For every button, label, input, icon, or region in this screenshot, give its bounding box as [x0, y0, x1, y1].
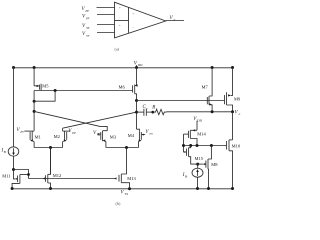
node VDD-M6: [135, 66, 138, 69]
label VDD local: [193, 117, 202, 123]
op-amp U1 body (part a): [115, 2, 166, 38]
svg-text:M13: M13: [127, 176, 136, 181]
label Vpn (input a2): [82, 14, 90, 20]
svg-text:M7: M7: [202, 85, 209, 90]
node IB right on VSS: [196, 187, 199, 190]
svg-text:+: +: [119, 23, 121, 27]
transistor M12: [43, 148, 51, 189]
wire NMOS mirror gate rail: [29, 178, 117, 180]
node M10 source on VSS: [231, 187, 234, 190]
label VSS: [121, 191, 129, 197]
node M13 source on VSS: [128, 187, 131, 190]
wire M8 gate lead: [198, 163, 204, 165]
label Vpp (input a1): [82, 7, 90, 13]
op-amp input wire Vnn: [97, 32, 115, 34]
capacitor Cc: [137, 109, 153, 116]
wire gate line M7/M9: [137, 100, 225, 102]
svg-text:M11: M11: [2, 173, 10, 178]
label Vpn at M1: [17, 128, 25, 134]
node M8 drain tap: [210, 144, 213, 147]
label Vo output: [235, 110, 241, 116]
node M11 source on VSS: [11, 187, 14, 190]
node left tail: [49, 146, 52, 149]
svg-text:DD: DD: [197, 119, 202, 123]
label Vnp at M3: [93, 131, 101, 137]
wire M5 source column: [33, 68, 35, 87]
svg-text:-: -: [133, 25, 134, 29]
svg-text:-: -: [119, 33, 120, 37]
node B at compensation tap: [135, 111, 138, 114]
label Vnn (input a4): [82, 32, 90, 38]
svg-text:SS: SS: [125, 192, 129, 196]
node B upper (second stage input): [135, 99, 138, 102]
transistor M3: [97, 131, 106, 148]
svg-text:M15: M15: [195, 156, 204, 161]
transistor M9: [225, 68, 233, 112]
wire node B column: [136, 101, 138, 130]
label Vo (op-amp output): [170, 16, 176, 22]
svg-text:M12: M12: [53, 173, 62, 178]
resistor Rz: [153, 109, 167, 114]
label IB right: [182, 173, 187, 179]
svg-text:pp: pp: [71, 130, 76, 134]
transistor M10: [224, 140, 232, 189]
svg-text:+: +: [119, 6, 121, 10]
svg-text:M5: M5: [42, 83, 49, 88]
wire cross-couple D1 (M1/M3 drains): [34, 111, 107, 130]
svg-text:B: B: [185, 174, 187, 178]
wire IB right to VSS: [197, 177, 199, 188]
node right tail: [125, 146, 128, 149]
transistor M1: [24, 131, 34, 147]
node A upper: [33, 100, 36, 103]
transistor M7: [207, 68, 212, 112]
wire cross-couple D2 (M2/M4 drains): [63, 112, 137, 128]
label Cc: [143, 105, 149, 111]
svg-text:M3: M3: [110, 134, 117, 139]
node M11 diode junction: [12, 168, 15, 171]
transistor M14: [184, 129, 198, 145]
node gate tie on bias line: [182, 144, 185, 147]
svg-text:M1: M1: [35, 134, 41, 139]
svg-text:nn: nn: [86, 34, 90, 38]
svg-text:M2: M2: [54, 134, 60, 139]
node M7 drain on output: [211, 110, 214, 113]
svg-text:M4: M4: [128, 133, 135, 138]
svg-text:M8: M8: [211, 162, 218, 167]
node VDD-M7: [211, 66, 214, 69]
transistor M2: [63, 128, 71, 147]
node tap on M5 drain wire: [54, 89, 57, 92]
node M15 source tap: [189, 144, 192, 147]
wire right tail: [106, 147, 139, 149]
node output Vo: [231, 110, 234, 113]
svg-text:DD: DD: [138, 63, 143, 67]
svg-text:np: np: [97, 132, 101, 136]
node M14 drain: [196, 144, 199, 147]
label Vnp (input a3): [82, 24, 90, 30]
wire M11 diode loop: [14, 170, 29, 179]
wire VSS rail: [12, 188, 233, 190]
node A lower (D1 start): [33, 110, 36, 113]
current source IB right: [192, 168, 203, 177]
transistor M11: [12, 173, 30, 188]
node M15 drain / M8 gate: [196, 163, 199, 166]
wire bias node line to M10 gate: [184, 145, 225, 147]
label Vpp at M2: [68, 129, 76, 135]
op-amp input wire Vpp: [97, 7, 115, 9]
wire output net: [167, 111, 233, 113]
svg-text:np: np: [86, 26, 90, 30]
wire M6 source column: [136, 68, 138, 86]
wire VDD local stub: [196, 121, 198, 131]
op-amp output wire Vo: [166, 20, 184, 22]
svg-text:pp: pp: [85, 8, 90, 12]
label IB left: [1, 149, 6, 155]
transistor M6: [133, 84, 138, 100]
label VDD main: [134, 61, 143, 67]
wire node A column: [33, 91, 35, 131]
label Vnn at M4: [145, 130, 153, 136]
svg-text:(b): (b): [116, 201, 121, 206]
wire node A L-route: [34, 91, 55, 102]
transistor M5: [34, 84, 41, 91]
node VDD rail left end: [12, 66, 15, 69]
svg-text:(a): (a): [115, 46, 120, 51]
wire M12 drain column: [50, 148, 52, 175]
wire M15 drain to IB right: [197, 164, 199, 168]
wire IB left to M11 node: [13, 156, 15, 169]
transistor M4: [137, 129, 146, 147]
svg-text:M9: M9: [234, 96, 241, 101]
wire VDD rail: [14, 67, 233, 69]
svg-text:R: R: [151, 105, 155, 110]
svg-text:pn: pn: [20, 130, 25, 134]
transistor M15: [187, 146, 198, 165]
label Rz: [151, 105, 158, 111]
svg-text:nn: nn: [150, 131, 154, 135]
wire VDD stub: [136, 65, 138, 67]
wire M11 gate lead: [14, 170, 16, 179]
transistor M8: [203, 146, 211, 189]
svg-text:+: +: [133, 12, 135, 16]
svg-text:M14: M14: [197, 132, 206, 137]
wire M14/M15 gate tie: [184, 134, 187, 152]
svg-text:B: B: [4, 150, 6, 154]
svg-text:-: -: [119, 15, 120, 19]
svg-text:M10: M10: [232, 144, 241, 149]
svg-text:pn: pn: [85, 16, 90, 20]
node VDD-M9: [231, 66, 234, 69]
current source IB left: [8, 147, 19, 156]
wire left IB column from VDD: [13, 68, 15, 147]
node Cc-Rz: [151, 111, 154, 114]
wire left tail: [34, 147, 63, 149]
op-amp input wire Vnp: [97, 24, 115, 26]
svg-text:M6: M6: [119, 85, 126, 90]
node VDD-M5 junction: [33, 66, 36, 69]
op-amp polarity signs: [119, 6, 135, 37]
wire output to M10 drain: [232, 112, 234, 140]
node M8 source on VSS: [207, 187, 210, 190]
transistor M13: [114, 148, 129, 189]
node M12 source on VSS: [49, 187, 52, 190]
wire first stage output (M5 drain to M6 gate): [34, 90, 132, 92]
op-amp input wire Vpn: [97, 14, 115, 16]
